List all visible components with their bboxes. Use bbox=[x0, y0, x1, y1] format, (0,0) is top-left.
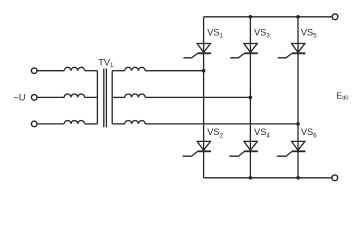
winding primary A bbox=[64, 67, 84, 70]
terminal input phase B bbox=[31, 95, 37, 101]
junction top rail leg 3 bbox=[296, 15, 300, 19]
wire primary A to star point bbox=[85, 70, 98, 72]
wire phase C to primary bbox=[37, 123, 64, 125]
svg-text:~U: ~U bbox=[14, 92, 26, 102]
thyristor VS4 bbox=[229, 141, 257, 156]
thyristor VS1 bbox=[183, 44, 211, 58]
junction top rail leg 2 bbox=[249, 15, 253, 19]
thyristor VS3 bbox=[230, 44, 258, 58]
junction phase C leg 3 bbox=[296, 122, 300, 126]
terminal DC top bbox=[332, 14, 338, 20]
junction phase A leg 1 bbox=[202, 69, 206, 73]
junction phase B leg 2 bbox=[249, 96, 253, 100]
svg-text:VS5: VS5 bbox=[301, 27, 317, 39]
winding secondary A bbox=[125, 67, 145, 70]
thyristor VS2 bbox=[183, 141, 211, 156]
svg-text:VS2: VS2 bbox=[207, 127, 223, 139]
wire secondary B from star bbox=[112, 96, 125, 98]
thyristor VS6 bbox=[277, 141, 305, 156]
junction bottom rail leg 3 bbox=[296, 176, 300, 180]
leg 1 wire bbox=[203, 17, 205, 178]
wire primary B to star point bbox=[85, 96, 98, 98]
svg-text:TV1: TV1 bbox=[98, 57, 114, 69]
wire phase A to primary bbox=[37, 70, 64, 72]
wire secondary C from star bbox=[112, 123, 125, 125]
winding secondary C bbox=[125, 121, 145, 124]
thyristor VS5 bbox=[278, 44, 306, 58]
core line left bbox=[103, 69, 105, 128]
winding primary B bbox=[64, 94, 84, 97]
winding primary C bbox=[64, 121, 84, 124]
primary star bus bbox=[96, 71, 98, 124]
core line right bbox=[105, 69, 107, 128]
wire secondary A from star bbox=[112, 70, 125, 72]
svg-text:VS6: VS6 bbox=[301, 127, 317, 139]
junction bottom rail leg 2 bbox=[249, 176, 253, 180]
bottom DC rail bbox=[204, 177, 332, 179]
svg-text:Ed0: Ed0 bbox=[336, 90, 348, 101]
wire secondary A to leg 1 bbox=[145, 70, 203, 72]
top DC rail bbox=[204, 16, 333, 18]
terminal input phase C bbox=[31, 121, 37, 127]
leg 3 wire bbox=[297, 17, 299, 178]
winding secondary B bbox=[125, 94, 145, 97]
terminal DC bottom bbox=[332, 175, 338, 181]
wire phase B to primary bbox=[37, 96, 64, 98]
svg-text:VS4: VS4 bbox=[254, 127, 270, 139]
terminal input phase A bbox=[31, 68, 37, 74]
secondary star bus bbox=[111, 71, 113, 124]
svg-text:VS1: VS1 bbox=[207, 27, 223, 39]
svg-text:VS3: VS3 bbox=[254, 27, 270, 39]
wire secondary C to leg 3 bbox=[145, 123, 298, 125]
leg 2 wire bbox=[249, 17, 251, 178]
wire secondary B to leg 2 bbox=[145, 96, 250, 98]
wire primary C to star point bbox=[85, 123, 98, 125]
